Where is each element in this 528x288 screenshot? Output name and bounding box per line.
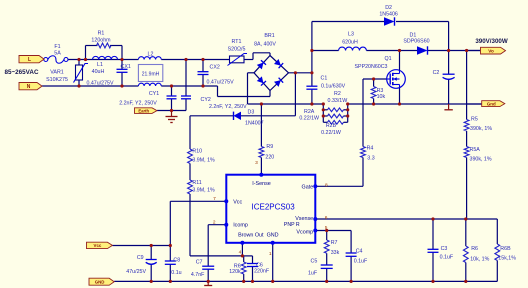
svg-text:Gnd: Gnd — [487, 101, 496, 106]
svg-text:3.9M, 1%: 3.9M, 1% — [192, 187, 215, 193]
svg-text:390k, 1%: 390k, 1% — [470, 126, 492, 132]
svg-text:2.2nF, Y2, 250V: 2.2nF, Y2, 250V — [119, 100, 157, 106]
svg-text:47u/25V: 47u/25V — [126, 269, 146, 275]
svg-text:4.7nF: 4.7nF — [191, 272, 205, 278]
svg-text:CY2: CY2 — [201, 97, 211, 103]
svg-text:R5A: R5A — [470, 147, 481, 153]
svg-text:BR1: BR1 — [264, 33, 274, 39]
svg-text:ICE2PCS03: ICE2PCS03 — [252, 202, 296, 211]
svg-text:CX2: CX2 — [210, 65, 220, 71]
svg-text:220nF: 220nF — [254, 269, 270, 275]
svg-text:3: 3 — [255, 160, 258, 166]
svg-text:0.47u/275V: 0.47u/275V — [207, 79, 235, 85]
svg-text:390k, 1%: 390k, 1% — [470, 156, 492, 162]
svg-text:0.22/1W: 0.22/1W — [299, 115, 319, 121]
svg-text:R2B: R2B — [326, 123, 337, 129]
svg-text:R11: R11 — [192, 180, 201, 186]
svg-text:D2: D2 — [385, 5, 392, 11]
svg-text:120k: 120k — [229, 269, 241, 275]
svg-text:R4: R4 — [367, 145, 374, 151]
svg-text:R2A: R2A — [304, 109, 315, 115]
svg-text:390V/300W: 390V/300W — [475, 38, 507, 45]
svg-text:GND: GND — [95, 280, 105, 285]
svg-text:C4: C4 — [356, 248, 363, 254]
svg-text:1N5406: 1N5406 — [379, 12, 398, 18]
svg-text:VAR1: VAR1 — [50, 69, 63, 75]
svg-text:C6: C6 — [256, 263, 263, 269]
svg-text:SPP20N60C3: SPP20N60C3 — [355, 64, 388, 70]
svg-text:C5: C5 — [311, 258, 318, 264]
svg-text:0.1uF: 0.1uF — [354, 258, 368, 264]
svg-text:1uF: 1uF — [308, 271, 318, 277]
svg-text:10k, 1%: 10k, 1% — [470, 256, 489, 262]
svg-text:4: 4 — [239, 250, 242, 256]
svg-text:8A, 400V: 8A, 400V — [254, 42, 276, 48]
svg-text:Vcc: Vcc — [233, 199, 242, 205]
svg-text:C9: C9 — [137, 255, 144, 261]
svg-text:C2: C2 — [433, 70, 440, 76]
svg-text:Vo: Vo — [488, 48, 494, 53]
svg-text:Vcc: Vcc — [94, 243, 102, 248]
svg-text:85~265VAC: 85~265VAC — [5, 69, 39, 76]
svg-text:1N4007: 1N4007 — [245, 121, 264, 127]
svg-text:Icomp: Icomp — [233, 223, 248, 229]
svg-text:C1: C1 — [321, 75, 328, 81]
svg-text:1: 1 — [269, 251, 272, 257]
svg-text:I-Sense: I-Sense — [252, 181, 271, 187]
svg-text:8: 8 — [325, 182, 328, 188]
svg-text:33k: 33k — [331, 250, 340, 256]
svg-text:R10: R10 — [192, 149, 202, 155]
svg-text:F1: F1 — [54, 44, 60, 50]
svg-text:Q1: Q1 — [384, 56, 391, 62]
svg-text:0.1u/630V: 0.1u/630V — [321, 83, 346, 89]
svg-text:R6B: R6B — [500, 246, 511, 252]
svg-text:6: 6 — [325, 215, 328, 221]
svg-text:0.1uF: 0.1uF — [440, 255, 454, 261]
svg-text:L: L — [28, 57, 31, 63]
svg-text:R6: R6 — [471, 246, 478, 252]
svg-text:15k,1%: 15k,1% — [498, 256, 516, 262]
svg-text:C8: C8 — [173, 257, 180, 263]
svg-text:Vsense: Vsense — [295, 216, 313, 222]
svg-text:D1: D1 — [410, 32, 417, 38]
svg-text:Brown Out: Brown Out — [238, 233, 264, 239]
svg-text:120ohm: 120ohm — [91, 38, 111, 44]
svg-text:L3: L3 — [348, 32, 354, 38]
svg-text:0.22/1W: 0.22/1W — [321, 130, 341, 136]
svg-text:2.2nF, Y2, 250V: 2.2nF, Y2, 250V — [209, 104, 247, 110]
svg-text:10k: 10k — [377, 94, 386, 100]
svg-text:Gate: Gate — [302, 185, 314, 191]
svg-text:R3: R3 — [377, 88, 384, 94]
svg-text:R1: R1 — [98, 31, 105, 37]
svg-text:2: 2 — [213, 219, 216, 225]
svg-text:GND: GND — [267, 233, 279, 239]
svg-text:CX1: CX1 — [121, 64, 131, 70]
svg-text:R9: R9 — [266, 144, 273, 150]
svg-text:SDP06S60: SDP06S60 — [403, 39, 429, 45]
svg-text:S20Ω/5: S20Ω/5 — [228, 46, 246, 52]
svg-text:3.3: 3.3 — [367, 156, 374, 162]
svg-text:L1: L1 — [97, 62, 103, 68]
svg-text:R7: R7 — [331, 240, 338, 246]
svg-text:7: 7 — [213, 196, 216, 202]
svg-text:620uH: 620uH — [342, 40, 358, 46]
svg-text:3.9M, 1%: 3.9M, 1% — [192, 158, 215, 164]
svg-text:D3: D3 — [248, 109, 255, 115]
svg-text:L2: L2 — [148, 52, 154, 58]
svg-text:R5: R5 — [471, 117, 478, 123]
svg-text:5A: 5A — [54, 51, 61, 57]
svg-text:40uH: 40uH — [92, 69, 105, 75]
svg-text:21.9mH: 21.9mH — [142, 71, 160, 77]
svg-text:0.1u: 0.1u — [171, 270, 181, 276]
svg-text:0.47u/275V: 0.47u/275V — [86, 80, 114, 86]
svg-text:Earth: Earth — [138, 108, 149, 113]
svg-text:PNP R: PNP R — [284, 222, 300, 228]
svg-text:220: 220 — [265, 154, 274, 160]
svg-text:C7: C7 — [196, 260, 203, 266]
svg-text:C3: C3 — [441, 246, 448, 252]
svg-text:S10K275: S10K275 — [46, 77, 68, 83]
svg-text:RT1: RT1 — [232, 39, 242, 45]
svg-text:0.33/1W: 0.33/1W — [328, 98, 348, 104]
svg-text:N: N — [27, 84, 31, 90]
svg-text:Vcomp: Vcomp — [296, 229, 313, 235]
svg-text:R2: R2 — [334, 91, 341, 97]
svg-text:CY1: CY1 — [149, 91, 159, 97]
